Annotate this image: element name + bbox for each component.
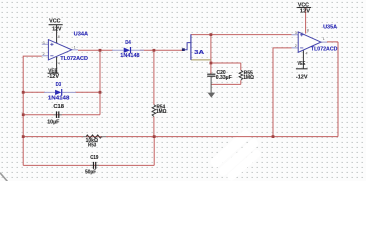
svg-text:C19: C19 xyxy=(90,155,98,161)
op-amp U34A xyxy=(42,32,88,66)
svg-text:2: 2 xyxy=(295,44,297,48)
power VEE U34A xyxy=(47,57,59,80)
svg-text:3A: 3A xyxy=(194,50,204,56)
svg-text:TL072ACD: TL072ACD xyxy=(311,47,338,53)
svg-text:10µF: 10µF xyxy=(47,119,60,125)
wire R53 net long horizontal xyxy=(23,136,338,138)
wire U35A output feedback xyxy=(327,42,338,137)
svg-text:3: 3 xyxy=(43,41,45,45)
ground xyxy=(208,93,216,98)
power VCC U34A xyxy=(49,19,63,44)
svg-text:D4: D4 xyxy=(125,40,131,46)
transistor 3A xyxy=(182,34,204,60)
resistor R54 xyxy=(152,105,167,117)
power VCC U35A xyxy=(297,2,312,14)
wire D3 branch xyxy=(23,91,100,93)
watermark xyxy=(0,128,266,184)
node junction C18 left xyxy=(22,113,25,116)
svg-text:1N4148: 1N4148 xyxy=(48,95,70,101)
wire U35A VCC xyxy=(305,8,307,34)
capacitor C18 xyxy=(47,104,64,125)
capacitor C19 xyxy=(85,155,99,176)
svg-text:U35A: U35A xyxy=(323,24,337,30)
svg-text:2: 2 xyxy=(43,52,45,56)
svg-text:1MΩ: 1MΩ xyxy=(243,75,254,81)
node junction R54 bottom xyxy=(153,135,156,138)
svg-text:12V: 12V xyxy=(52,26,62,32)
wire U35A inverting input xyxy=(273,48,292,137)
wire U34A output vertical xyxy=(99,50,101,114)
capacitor C20 xyxy=(207,70,232,93)
svg-text:1N4148: 1N4148 xyxy=(120,53,139,59)
wire C18 branch xyxy=(23,114,100,116)
svg-text:C18: C18 xyxy=(53,104,64,110)
node junction U34A output xyxy=(99,49,102,52)
svg-text:TL072ACD: TL072ACD xyxy=(60,56,88,62)
node junction C20 top xyxy=(210,62,213,65)
svg-text:3: 3 xyxy=(295,31,297,35)
wire C20 node to R55 xyxy=(211,63,241,84)
svg-text:R53: R53 xyxy=(88,143,96,149)
svg-text:VCC: VCC xyxy=(49,19,60,25)
node junction D3 left xyxy=(22,91,25,94)
resistor R55 xyxy=(239,70,255,81)
svg-text:U34A: U34A xyxy=(74,32,88,38)
svg-text:-12V: -12V xyxy=(47,74,59,80)
diode D4 xyxy=(112,40,144,59)
wire mid vertical to C20 xyxy=(210,35,212,74)
svg-text:D3: D3 xyxy=(56,82,62,88)
wire C19 bottom branch xyxy=(23,137,154,166)
svg-text:0.33µF: 0.33µF xyxy=(216,75,233,81)
svg-text:1: 1 xyxy=(74,46,76,50)
svg-text:VEE: VEE xyxy=(298,61,306,67)
svg-text:VCC: VCC xyxy=(298,2,309,8)
wire R54 vertical leads xyxy=(153,50,155,136)
wire drain to U35A non-inverting input xyxy=(191,34,292,36)
svg-text:50pF: 50pF xyxy=(85,169,97,175)
node junction R53 left xyxy=(22,135,25,138)
svg-text:4: 4 xyxy=(306,51,308,55)
svg-text:8: 8 xyxy=(58,35,60,39)
node junction U35A feedback xyxy=(272,135,275,138)
svg-text:-12V: -12V xyxy=(296,74,308,80)
wire source lead xyxy=(191,59,211,61)
svg-text:1: 1 xyxy=(323,37,325,41)
diode D3 xyxy=(44,82,76,101)
wire U34A output to gate xyxy=(78,49,183,51)
op-amp U35A xyxy=(292,24,338,55)
power VEE U35A xyxy=(296,50,308,81)
svg-text:12V: 12V xyxy=(300,9,311,15)
wire U34A inverting input feedback (node A vertical) xyxy=(23,56,42,165)
node junction drain xyxy=(210,33,213,36)
node junction R54 top xyxy=(153,49,156,52)
svg-text:8: 8 xyxy=(307,28,309,32)
svg-text:1MΩ: 1MΩ xyxy=(156,109,167,115)
node junction D3 right xyxy=(99,91,102,94)
resistor R53 xyxy=(83,135,106,149)
